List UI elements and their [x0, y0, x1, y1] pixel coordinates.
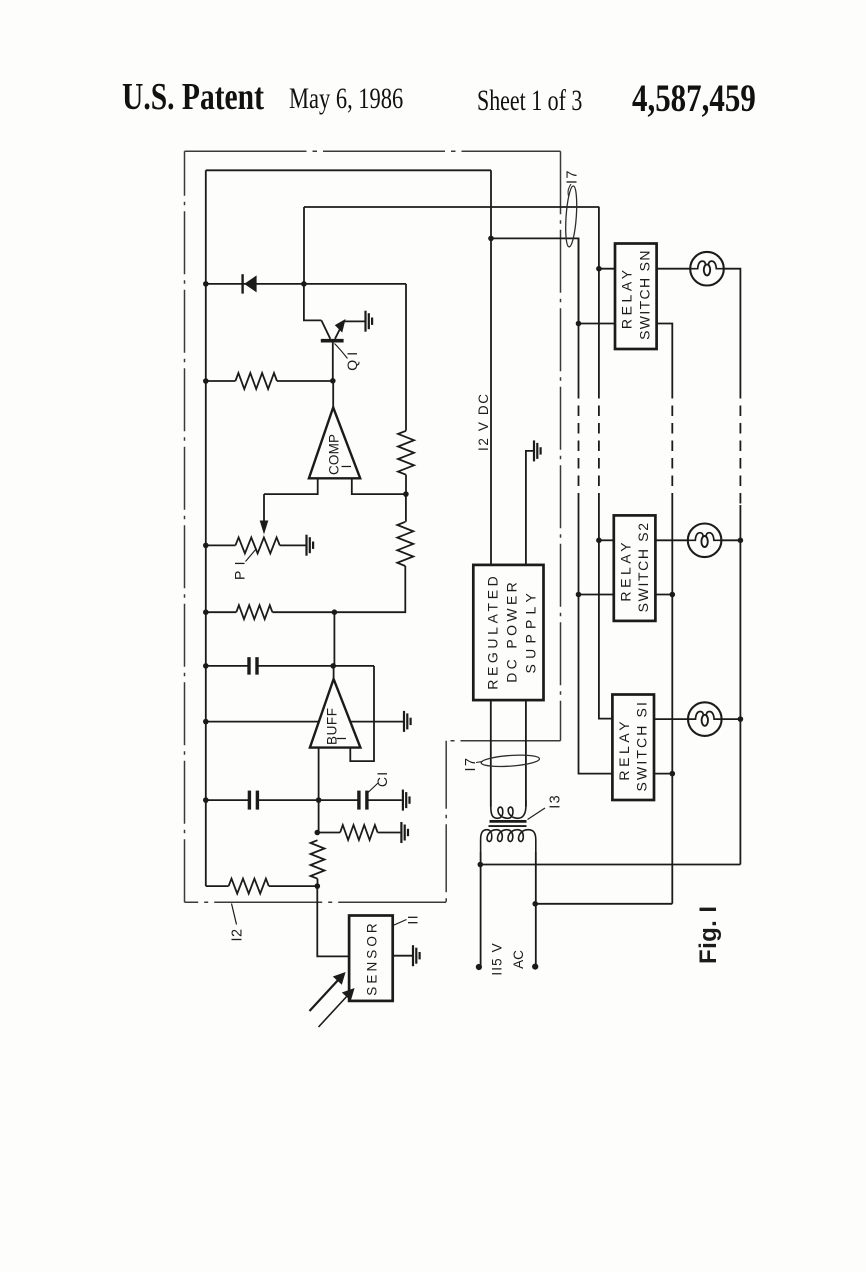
wire R5 left	[317, 832, 340, 834]
wire COMP output	[332, 381, 334, 408]
resistor R4	[236, 605, 272, 619]
node junction on +12V drop	[488, 236, 494, 242]
wire S2 lower pin	[579, 594, 614, 596]
svg-text:AC: AC	[511, 950, 526, 969]
ground at sensor	[412, 945, 414, 966]
node rail B / S2 lower pin	[576, 592, 582, 598]
dashed enclosure box 12 bottom edge	[185, 901, 447, 903]
wire COMP minus input stub	[352, 478, 406, 494]
transistor Q1 collector wire	[304, 284, 322, 321]
wire S2 upper pin	[599, 539, 614, 541]
svg-text:I7: I7	[565, 170, 581, 184]
potentiometer P1 element	[235, 537, 279, 553]
wire row1 right	[277, 380, 333, 382]
svg-text:I7: I7	[463, 758, 479, 772]
wire C1 row middle	[258, 799, 359, 801]
resistor R1	[235, 373, 277, 389]
node rail D / lamp S1	[738, 716, 744, 722]
wire rail E lower	[671, 500, 673, 904]
light arrow 2 shaft	[319, 995, 349, 1028]
wire diode row	[206, 283, 406, 285]
leader line for label 12	[232, 904, 237, 925]
node rail E / S1 out	[670, 771, 676, 777]
wire Q1 base down to COMP output node	[332, 341, 334, 381]
dashed enclosure box 12 notch vertical edge	[445, 741, 447, 903]
wire BUFF plus input	[206, 721, 319, 723]
lamp L1 filament	[688, 712, 722, 720]
node row2 / vertical link	[332, 609, 338, 615]
wire rail B dashed section	[578, 388, 580, 500]
node rail D / lamp S2	[738, 538, 744, 544]
wire rail D dashed section	[739, 388, 741, 505]
wire R5 to ground	[378, 832, 401, 834]
wire rail E dashed section	[671, 388, 673, 500]
node rail B / SN lower pin	[576, 321, 582, 327]
svg-text:I: I	[334, 737, 349, 741]
node left rail row2	[203, 609, 209, 615]
terminal dot 115V right	[532, 964, 538, 970]
svg-text:RELAY: RELAY	[617, 541, 633, 601]
transformer T1 secondary winding	[491, 800, 526, 818]
block RELAY SWITCH S2	[614, 515, 656, 621]
light arrow 2 head	[342, 988, 355, 1001]
wire primary right lead	[535, 852, 537, 967]
ground at Q1 emitter	[364, 311, 366, 332]
ground at C1	[402, 790, 404, 811]
wire S2 lamp return	[721, 539, 740, 541]
terminal dot 115V left	[476, 964, 482, 970]
wire S1 lamp return	[722, 718, 741, 720]
resistor R7	[229, 879, 269, 894]
potentiometer P1 wiper arrowhead	[260, 521, 269, 535]
svg-text:RELAY: RELAY	[619, 269, 635, 329]
wire S2 switched output	[656, 594, 673, 596]
wire cap row right	[257, 665, 374, 667]
capacitor C2	[247, 657, 250, 675]
lamp L2 circle	[688, 524, 722, 558]
svg-text:I2 V DC: I2 V DC	[476, 393, 491, 451]
svg-text:REGULATED: REGULATED	[484, 575, 500, 690]
wire BUFF output stub	[333, 666, 335, 679]
leader line P1	[246, 549, 257, 562]
wire right branch down from diode row	[405, 284, 407, 431]
transistor Q1 collector slant	[321, 320, 330, 338]
wire supply secondary right	[525, 700, 527, 806]
wire power supply +12V vertical drop	[490, 170, 492, 565]
svg-text:II5 V: II5 V	[490, 942, 505, 975]
svg-text:RELAY: RELAY	[616, 720, 632, 780]
wire vertical from 207-wire down to diode row	[303, 207, 305, 284]
wire rail D lower	[739, 505, 741, 865]
wire C1 to ground	[367, 799, 402, 801]
wire S1 lamp feed	[654, 718, 688, 720]
wire sensor drop	[317, 886, 349, 956]
wire S2 lamp feed	[656, 539, 688, 541]
svg-text:II: II	[405, 914, 421, 925]
wire R6 bottom	[317, 879, 319, 886]
wire left rail bottom corner	[206, 885, 229, 887]
node diode row / Q1 collector	[301, 281, 307, 287]
header: patent number	[632, 76, 756, 121]
wire +V top rail from left rail corner to power supply drop	[206, 169, 491, 171]
node left rail BUFF row	[203, 719, 209, 725]
wire BUFF ground pin	[350, 721, 403, 723]
node left rail P1 row	[203, 543, 209, 549]
wire second top wire y=207	[304, 206, 599, 208]
svg-text:SWITCH SN: SWITCH SN	[636, 250, 652, 340]
wire AC hot run to right rail	[480, 864, 740, 866]
node rail C / S2 upper pin	[596, 538, 602, 544]
wire S1 switched output	[654, 773, 672, 775]
node R5 row junction	[315, 830, 321, 836]
leader 13	[528, 808, 546, 820]
wire SN switched output	[657, 324, 672, 389]
wire cap row left	[206, 665, 249, 667]
svg-text:SWITCH SI: SWITCH SI	[634, 701, 650, 791]
lamp L2 filament	[688, 533, 722, 541]
resistor R5	[340, 825, 378, 840]
lamp L1 circle	[688, 702, 722, 736]
wire bottom row right	[269, 885, 318, 887]
diode D1 cathode bar	[241, 274, 243, 293]
resistor R3 (vertical)	[397, 522, 413, 566]
wire supply secondary left	[490, 700, 492, 806]
wire row1 left	[206, 380, 236, 382]
wire BUFF input stub down	[318, 748, 320, 833]
svg-text:SENSOR: SENSOR	[365, 921, 380, 995]
svg-text:I3: I3	[548, 795, 564, 809]
svg-text:QI: QI	[344, 351, 360, 370]
leader line 11	[393, 920, 407, 926]
wire SN lower pin	[579, 323, 616, 325]
ground at supply	[533, 440, 535, 461]
transformer T1 primary winding	[481, 830, 536, 852]
wire supply ground pin	[526, 451, 533, 565]
wire 12V branch to relay rail B	[491, 238, 579, 323]
transistor Q1 emitter slant	[335, 321, 344, 338]
resistor R6 (vertical)	[311, 840, 325, 879]
potentiometer P1 wiper arrow line	[263, 494, 265, 522]
wire sensor ground	[393, 955, 412, 957]
wire primary left lead	[480, 852, 482, 967]
wire vertical link down to cap row	[333, 612, 335, 666]
node left rail / diode row	[203, 281, 209, 287]
wire Q1 emitter to ground	[344, 320, 365, 322]
wire row2 left	[206, 611, 237, 613]
capacitor C1	[357, 791, 360, 810]
ground at R5	[400, 822, 402, 843]
ground at BUFF	[403, 711, 405, 732]
lamp LN circle	[690, 252, 724, 286]
op-amp COMP1 triangle	[309, 407, 360, 478]
wire rail C lower	[599, 500, 613, 719]
transistor Q1 base bar	[321, 339, 344, 343]
wire rail B lower	[579, 500, 613, 774]
leader 17 bottom	[476, 762, 483, 763]
node left rail row1	[203, 378, 209, 384]
dashed enclosure box 12 top edge	[185, 150, 561, 152]
lamp LN filament	[690, 261, 724, 269]
header: U.S. Patent	[122, 76, 264, 119]
dashed enclosure box 12 right edge	[560, 151, 562, 741]
node primary right junction	[532, 901, 538, 907]
transistor Q1 emitter arrow	[335, 319, 346, 333]
node left rail C1 row	[203, 797, 209, 803]
wire R3 bottom to feedback row	[334, 566, 405, 612]
block RELAY SWITCH S1	[612, 695, 654, 801]
op-amp BUFF1 triangle	[310, 679, 361, 748]
transformer T1 core	[490, 820, 527, 823]
node rail C / SN upper pin	[596, 266, 602, 272]
svg-text:SUPPLY: SUPPLY	[522, 592, 538, 673]
leader line C1	[368, 783, 379, 793]
resistor R2 (vertical)	[398, 431, 414, 475]
wire SN upper pin	[599, 268, 615, 270]
svg-text:Fig. I: Fig. I	[695, 905, 722, 964]
cable loop 17 (bottom)	[481, 753, 540, 768]
wire rail C upper (to SN upper pin)	[598, 207, 600, 388]
wire rail B upper (supply to SN lower pin)	[578, 238, 580, 388]
wire P1 right to ground	[280, 544, 306, 546]
node sensor row	[315, 883, 321, 889]
wire P1 left	[206, 544, 236, 546]
wire R2 to node	[405, 475, 407, 494]
header: sheet number	[477, 85, 582, 118]
block SENSOR box 11	[349, 916, 393, 1001]
wire SN lamp return	[724, 269, 741, 388]
wire rail C dashed section	[598, 388, 600, 500]
block RELAY SWITCH SN	[615, 244, 657, 350]
node Q1 base / COMP output	[330, 378, 336, 384]
svg-text:I2: I2	[230, 928, 246, 941]
diode D1 triangle	[244, 275, 256, 292]
node BUFF output	[330, 663, 336, 669]
svg-text:I: I	[339, 465, 354, 469]
block REGULATED DC POWER SUPPLY	[473, 565, 543, 700]
wire left vertical rail	[205, 170, 207, 886]
wire R3 top	[405, 494, 407, 522]
dashed enclosure box 12 left edge	[184, 151, 186, 902]
capacitor C3	[248, 791, 251, 810]
node primary left junction	[478, 862, 484, 868]
leader line Q1	[335, 344, 348, 359]
header: date	[289, 83, 403, 116]
wire BUFF feedback loop	[350, 666, 374, 761]
node rail E / S2 out	[670, 592, 676, 598]
node C1 row junction	[316, 797, 322, 803]
node minus input / divider	[403, 491, 409, 497]
wire COMP plus input stub	[264, 478, 318, 494]
node left rail cap row	[203, 663, 209, 669]
svg-text:DC POWER: DC POWER	[503, 581, 519, 683]
wire C1 row left	[206, 799, 249, 801]
wire AC neutral run to relay common	[535, 903, 672, 905]
cable loop 17 (top)	[564, 186, 578, 248]
ground at P1	[305, 535, 307, 556]
svg-text:PI: PI	[232, 561, 248, 580]
light arrow 1 shaft	[310, 979, 340, 1012]
light arrow 1 head	[333, 972, 346, 985]
wire SN lamp feed	[657, 268, 690, 270]
leader 17 top	[568, 184, 571, 196]
svg-text:SWITCH S2: SWITCH S2	[635, 522, 651, 612]
wire row2 right	[272, 611, 334, 613]
dashed enclosure box 12 notch horizontal edge	[446, 740, 560, 742]
